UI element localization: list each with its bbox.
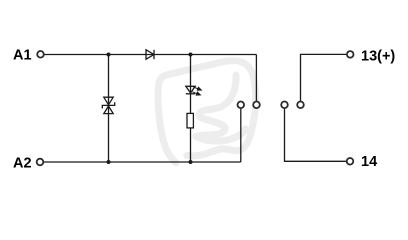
terminal 14 [347,158,354,165]
socket contact 1 (coil to A2) [238,102,245,109]
svg-text:A2: A2 [13,156,32,172]
junction dot A1/TVS [107,53,111,57]
wire A1 horizontal [44,54,256,56]
socket contact 2 (coil to A1) [253,102,260,109]
wire A2 horizontal [44,161,241,163]
wire A2 corner up to socket contact [240,109,242,162]
terminal 13(+) [347,51,354,58]
wire from socket contact up to 13(+) [301,54,347,101]
wire TVS branch vertical [108,55,110,163]
junction dot A2/TVS [107,160,111,164]
junction dot A1/LED [189,53,193,57]
LED arrow 1 [193,86,202,92]
socket contact 4 (to 13+) [297,102,304,109]
LED arrow 2 [192,90,201,96]
socket contact 3 (to 14) [281,102,288,109]
TVS suppressor diode [102,97,114,113]
resistor [187,113,193,128]
wire from socket contact down to 14 [285,109,347,162]
watermark logo [158,61,256,163]
terminal A1 [37,51,44,58]
junction dot A2/resistor [189,160,193,164]
terminal A2 [37,159,44,166]
svg-text:13(+): 13(+) [361,48,395,64]
wire LED branch vertical [190,55,192,163]
wire A1 corner down to socket contact [255,55,257,101]
series diode [146,50,154,59]
LED [186,86,195,94]
svg-text:14: 14 [361,154,377,170]
svg-text:A1: A1 [13,48,32,64]
